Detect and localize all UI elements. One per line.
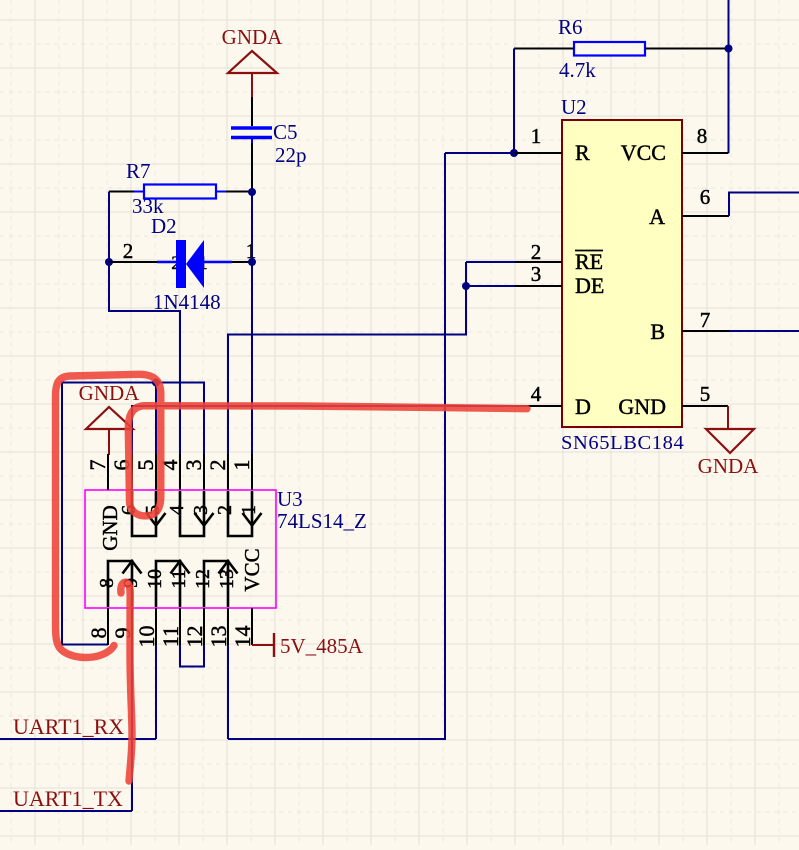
IC U2 SN65LBC184 body	[561, 95, 684, 454]
wire U3 pin 10 down to RX	[155, 645, 157, 739]
U3 inner gate stubs pins 12/13	[192, 561, 238, 607]
junction at pin5 branch	[152, 379, 160, 387]
U2 pin 4 (D)	[515, 382, 591, 419]
U3 inner gate stubs pins 10/11	[144, 561, 190, 607]
svg-text:U3: U3	[277, 487, 303, 511]
svg-text:3: 3	[531, 262, 542, 286]
U3 inner gate stubs pins 4/3	[166, 491, 214, 536]
U2 pin 5 (GND)	[618, 382, 728, 419]
U2 pin 8 (VCC)	[621, 124, 729, 165]
svg-text:UART1_RX: UART1_RX	[13, 714, 124, 739]
wire R7 right lead to junction	[226, 191, 252, 193]
svg-text:3: 3	[190, 505, 212, 515]
resistor R6 4.7k	[558, 15, 645, 82]
U3 pin 8 (bottom)	[86, 608, 111, 645]
svg-text:U2: U2	[561, 95, 587, 119]
svg-text:2: 2	[531, 240, 542, 264]
svg-text:R: R	[575, 140, 590, 165]
svg-text:1: 1	[229, 460, 254, 471]
U3 pin 13 (bottom)	[206, 608, 231, 648]
IC U3 74LS14_Z body	[85, 487, 367, 608]
svg-text:SN65LBC184: SN65LBC184	[561, 432, 684, 454]
svg-text:D: D	[575, 394, 591, 419]
svg-text:13: 13	[206, 626, 231, 648]
junction at DE tap	[462, 282, 470, 290]
svg-text:11: 11	[158, 626, 183, 647]
svg-text:13: 13	[216, 569, 238, 589]
U2 pin 7 (B)	[650, 308, 729, 344]
junction at D2 pin 1	[248, 258, 256, 266]
svg-text:7: 7	[700, 308, 711, 332]
wire R6 left lead	[514, 48, 574, 50]
power port GNDA (U2 pin 5)	[698, 406, 759, 478]
U3 pin 12 (bottom)	[182, 608, 207, 648]
annotation: red marker stroke (loop pin8/5/3 and D wire)	[56, 374, 528, 657]
U3 pin 9 (bottom)	[110, 608, 135, 645]
svg-text:74LS14_Z: 74LS14_Z	[277, 509, 367, 533]
wire R7 left down to D2 pin 2	[108, 192, 110, 263]
wire net to U2 pin 1	[445, 152, 514, 154]
wire U3 pins 11-12 link	[180, 645, 204, 667]
svg-text:DE: DE	[575, 273, 604, 298]
U2 pin 1 (R)	[514, 124, 590, 165]
wire U3 pin 13 down to RX	[227, 645, 229, 739]
wire net to RE	[466, 261, 515, 263]
wire U3 pin 9 down to TX	[131, 645, 133, 811]
wire R7 left lead	[109, 191, 134, 193]
svg-text:GNDA: GNDA	[698, 454, 759, 478]
U3 inner gate stubs pins 2/1	[214, 491, 262, 536]
svg-text:14: 14	[230, 626, 255, 648]
annotation: red marker stroke (pin 9 to TX)	[121, 582, 132, 781]
svg-text:12: 12	[192, 569, 214, 589]
U3 pin 10 (bottom)	[134, 608, 159, 648]
power port GNDA (U3 pin 7)	[79, 381, 140, 455]
svg-text:4: 4	[166, 505, 188, 515]
svg-text:R7: R7	[126, 159, 151, 183]
svg-text:RE: RE	[575, 249, 603, 274]
U3 pin 14 (bottom)	[230, 608, 255, 648]
svg-text:2: 2	[205, 460, 230, 471]
junction R6 right / VCC net	[725, 45, 733, 53]
wire VCC net vertical to top edge	[728, 0, 730, 153]
svg-text:C5: C5	[273, 120, 298, 144]
svg-text:GNDA: GNDA	[79, 381, 140, 405]
U3 pin 7 (top)	[85, 454, 110, 490]
wire D2 pin 2 loop to U3 pin 4	[109, 262, 180, 454]
svg-text:22p: 22p	[275, 143, 307, 167]
power port GNDA (top, above C5)	[222, 25, 283, 97]
svg-text:B: B	[650, 319, 665, 344]
wire C5 to junction	[251, 143, 253, 192]
diode D2 1N4148	[123, 214, 257, 314]
U3 pin 6 (top)	[109, 454, 134, 490]
svg-text:1: 1	[238, 505, 260, 515]
svg-text:6: 6	[700, 185, 711, 209]
power port 5V_485A	[252, 633, 364, 658]
svg-text:11: 11	[168, 569, 190, 588]
wire branch to U3 pin 5	[155, 383, 157, 455]
wire D2 pin1 lead	[232, 261, 252, 263]
U3 pin 1 (top)	[229, 454, 254, 490]
U3 pin 4 (top)	[157, 454, 182, 490]
U3 inner gate stubs pins 8/9	[96, 561, 142, 607]
svg-text:2: 2	[123, 239, 134, 263]
svg-text:R6: R6	[558, 15, 583, 39]
svg-text:7: 7	[85, 460, 110, 471]
svg-text:5V_485A: 5V_485A	[280, 634, 364, 658]
U3 pin 2 (top)	[205, 454, 230, 490]
U2 pin 6 (A)	[649, 185, 729, 229]
wire R6 left down to U2 pin 1	[513, 49, 515, 154]
junction at C5/R7 node	[248, 188, 256, 196]
wire node to U3 pin 1 (vertical)	[251, 192, 253, 454]
svg-text:12: 12	[182, 626, 207, 648]
U2 pin 2 (RE)	[515, 240, 603, 274]
wire TX net	[0, 810, 132, 812]
U3 pin 11 (bottom)	[158, 608, 183, 647]
wire U3 pin8 - pin5 - pin3 net (left loop)	[62, 383, 204, 645]
svg-text:A: A	[649, 204, 665, 229]
wire net to DE	[466, 285, 515, 287]
svg-text:4.7k: 4.7k	[559, 58, 596, 82]
U3 pin 5 (top)	[133, 454, 158, 490]
wire A net to right edge	[729, 193, 799, 217]
wire RX net right segment to U2 pin 1	[228, 153, 445, 739]
svg-text:8: 8	[697, 124, 708, 148]
svg-text:10: 10	[144, 569, 166, 589]
resistor R7 33k	[126, 159, 226, 218]
svg-text:GNDA: GNDA	[222, 25, 283, 49]
wire RX net left segment	[0, 738, 156, 740]
svg-text:4: 4	[531, 382, 542, 406]
U3 pin 3 (top)	[181, 454, 206, 490]
svg-text:5: 5	[700, 382, 711, 406]
wire B net to right edge	[729, 330, 799, 332]
svg-text:8: 8	[96, 578, 118, 588]
wire D net to U3 pin 6	[132, 406, 515, 454]
svg-text:2: 2	[214, 505, 236, 515]
svg-text:VCC: VCC	[240, 548, 264, 591]
svg-text:VCC: VCC	[621, 140, 666, 165]
svg-text:GND: GND	[618, 394, 666, 419]
U2 pin 3 (DE)	[515, 262, 604, 298]
wire GNDA to C5	[251, 97, 253, 126]
capacitor C5 22p	[231, 120, 307, 167]
svg-text:10: 10	[134, 626, 159, 648]
U3 inner gate stubs pins 6/5	[118, 491, 166, 536]
wire R6 right lead	[645, 48, 729, 50]
wire D2 pin2 lead	[109, 261, 157, 263]
svg-text:1: 1	[531, 124, 542, 148]
junction at U2 pin 1	[510, 149, 518, 157]
junction at D2 pin 2	[105, 258, 113, 266]
svg-text:3: 3	[181, 460, 206, 471]
svg-text:D2: D2	[151, 214, 177, 238]
svg-text:5: 5	[133, 460, 158, 471]
svg-text:UART1_TX: UART1_TX	[13, 786, 123, 811]
svg-text:8: 8	[86, 628, 111, 639]
wire RE/DE vertical and down to U3 pin 2	[228, 262, 466, 454]
